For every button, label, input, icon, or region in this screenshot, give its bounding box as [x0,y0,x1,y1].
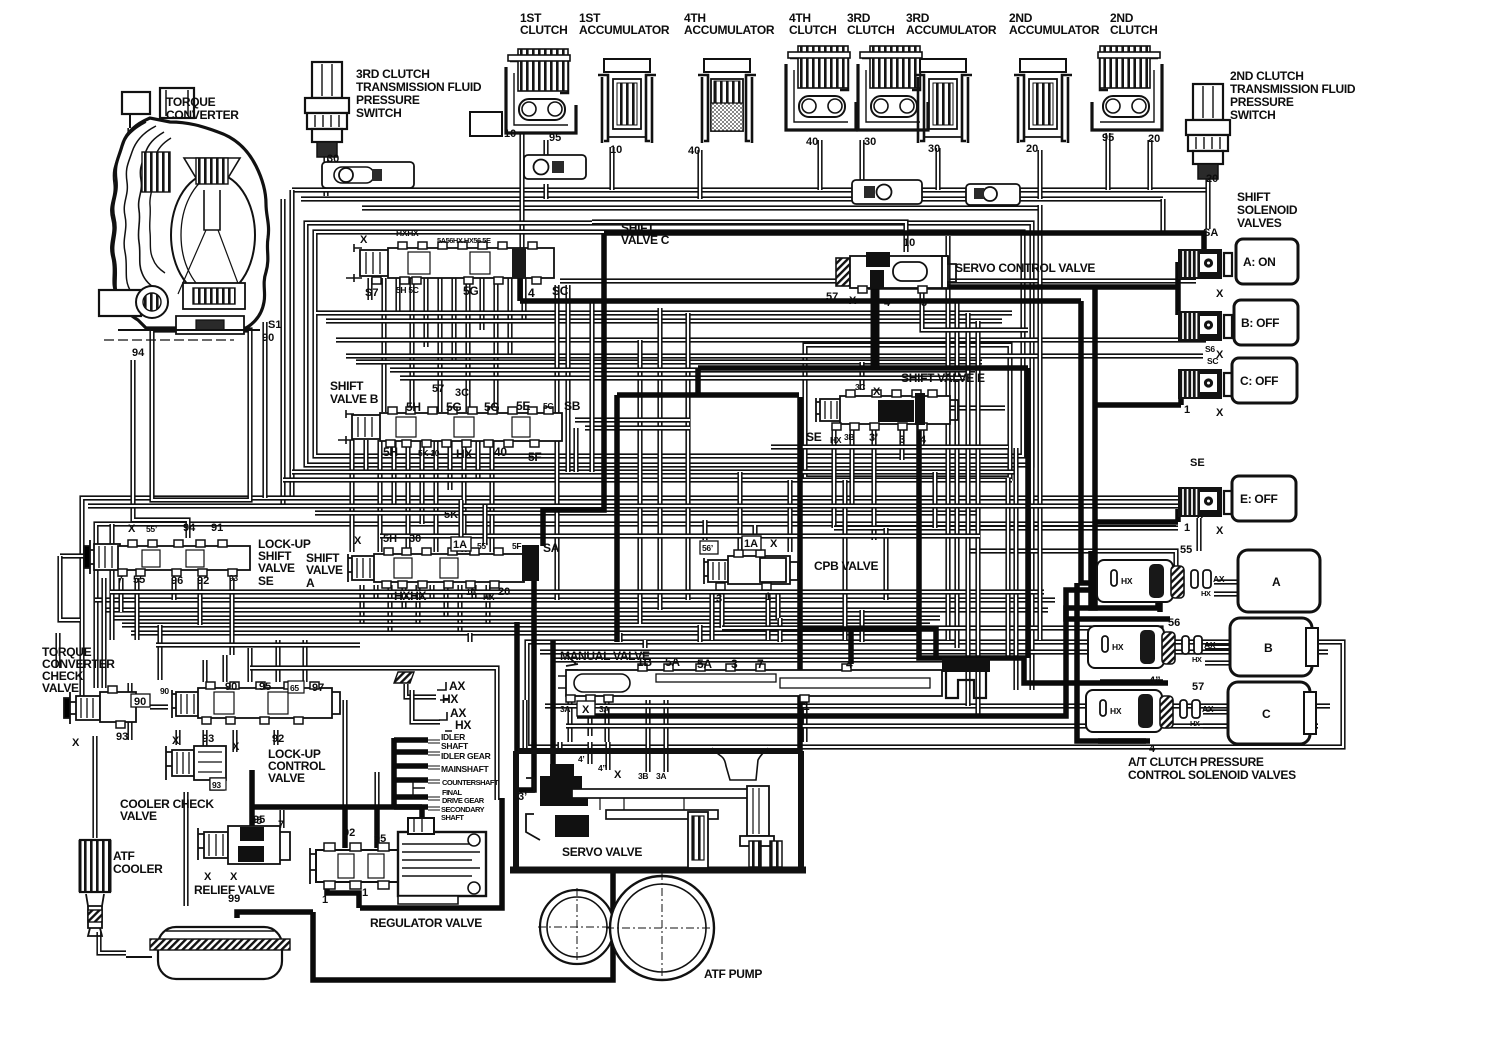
pipe lube main [391,738,397,808]
wire va10 [485,585,490,625]
pipe lube stub idler gear [394,749,428,755]
svg-text:SE: SE [1190,457,1205,469]
wire ve right [950,405,1005,410]
wire h362 [356,359,982,364]
svg-text:5A: 5A [697,657,712,671]
wire e box drop1 [1005,478,1010,660]
pipe SA drop [543,233,604,546]
svg-text:COUNTERSHAFT: COUNTERSHAFT [442,778,499,787]
wire h592 [110,589,1044,594]
pipe SA-SB junction [1175,262,1181,315]
svg-text:VALVE: VALVE [120,809,157,823]
svg-text:CPB VALVE: CPB VALVE [814,559,878,573]
A/T clutch pressure control solenoid A assembly [1097,560,1225,602]
wire vc5 [423,278,428,347]
orifice check valve top left [322,162,414,188]
wire cpb d2 [719,592,724,628]
svg-text:S7: S7 [365,287,378,299]
svg-text:HX: HX [456,447,472,461]
wire frame mid a [82,498,1200,710]
relief valve [198,826,290,864]
orifice check valve 2nd accumulator [966,184,1020,205]
pipe servo ctl drop fat [871,288,880,366]
wire h378 [400,375,965,380]
svg-text:X: X [360,234,368,246]
svg-text:HXHX: HXHX [396,228,419,238]
wire tcc frame [127,683,132,740]
shift solenoid valve SE [1178,487,1232,517]
svg-text:X: X [230,871,238,883]
svg-text:SWITCH: SWITCH [356,106,402,120]
labels near regulator idler shafts [851,697,853,707]
svg-text:10: 10 [504,128,516,140]
svg-text:3A: 3A [560,704,570,714]
wire 2nd clutch 20 drop [1147,140,1152,190]
svg-text:4”: 4” [598,763,606,773]
wire vc1 [367,278,372,300]
wire rc4 [965,313,970,706]
wire h610 [104,607,1048,612]
svg-text:20: 20 [498,586,510,598]
svg-text:94: 94 [132,347,145,359]
3rd accumulator [914,59,972,143]
svg-text:90: 90 [262,332,274,344]
svg-text:X: X [128,523,136,535]
svg-text:57: 57 [432,383,444,395]
wire lucv r1 [202,660,207,682]
wire row a link [1214,579,1238,584]
wire lucv r3 [247,648,252,682]
shift solenoid valve SA [1178,249,1232,279]
wire vb3 [377,440,382,552]
wire h340 [336,337,1206,342]
pipe to sol E [1095,509,1178,522]
wire lu4 [197,578,202,625]
wire manual 1 down [802,700,807,742]
svg-text:SHAFT: SHAFT [441,813,464,822]
wire h513 [315,510,980,515]
svg-text:VALVE: VALVE [306,563,343,577]
svg-text:3’: 3’ [518,791,527,803]
wire va6 [429,585,434,600]
wire left frame drop 1 [289,190,294,498]
svg-text:7: 7 [278,819,284,831]
svg-text:3: 3 [716,593,722,605]
svg-text:ACCUMULATOR: ACCUMULATOR [906,23,997,37]
svg-text:SA: SA [543,541,560,555]
svg-text:93: 93 [116,731,128,743]
wire vb11 [489,440,494,552]
svg-text:VALVE: VALVE [42,681,79,695]
svg-text:40: 40 [494,445,507,459]
svg-text:A: A [306,576,315,590]
wire relief 7 [279,810,284,828]
wire se hx line [771,444,1008,449]
wire bus2 right down [1160,199,1165,233]
shift valve A [348,545,539,588]
svg-text:3: 3 [921,297,927,309]
wire h536 [380,533,980,538]
svg-text:3: 3 [899,434,905,446]
wire h480 [283,477,1012,482]
svg-text:92: 92 [343,827,355,839]
wire row c neck2 [1203,723,1230,728]
orifice check valve 3rd clutch [852,180,922,204]
svg-text:AX: AX [1213,574,1225,584]
svg-text:C: C [1262,707,1271,721]
svg-text:3RD CLUTCH: 3RD CLUTCH [356,67,430,81]
svg-text:SHIFT: SHIFT [330,379,364,393]
svg-text:TORQUE: TORQUE [166,95,216,109]
wire lu left2 [60,556,80,620]
svg-text:20: 20 [1206,173,1218,185]
wire v58 [55,633,60,668]
2nd clutch pressure switch [1186,84,1230,179]
wire lu5 [229,578,234,655]
wire manual drops [642,640,647,648]
wire lu1 [118,578,123,612]
ATF pump [538,872,718,984]
svg-text:55’: 55’ [477,541,488,551]
svg-text:ATF PUMP: ATF PUMP [704,967,762,981]
wire h321 [326,318,1002,323]
svg-text:30: 30 [928,143,940,155]
svg-text:2ND CLUTCH: 2ND CLUTCH [1230,69,1304,83]
svg-text:HX: HX [442,692,458,706]
wire ve 3c [859,362,864,390]
svg-text:SHAFT: SHAFT [441,741,469,751]
pipe h366 [698,365,1028,371]
wire manual up4 [859,610,864,642]
svg-text:SA: SA [1203,227,1218,239]
wire row b neck2 [1205,660,1232,665]
svg-text:HX: HX [1110,706,1122,716]
wire ax bracket 1 [406,684,436,697]
svg-text:55: 55 [1180,544,1192,556]
svg-text:X: X [204,871,212,883]
wire 3rd accumulator drop [935,148,940,190]
svg-text:5H: 5H [383,533,397,545]
svg-text:20: 20 [1026,143,1038,155]
svg-text:57: 57 [1192,681,1204,693]
svg-text:SE: SE [258,574,274,588]
svg-text:B: OFF: B: OFF [1241,316,1279,330]
pipe servo left up [514,622,520,751]
1st accumulator [598,59,656,143]
wire vc2 [381,278,386,412]
wire lucv r2 [222,655,227,682]
svg-text:56’: 56’ [702,543,713,553]
wire lucv d3 [232,730,237,752]
svg-text:ACCUMULATOR: ACCUMULATOR [1009,23,1100,37]
svg-text:1: 1 [803,699,810,713]
countershaft bracket [413,780,425,798]
orifice check valve 1st clutch [524,155,586,179]
svg-text:S6: S6 [1205,344,1215,354]
wire top bus 3 [362,205,1040,210]
svg-text:95: 95 [549,132,561,144]
pipe valve e drop [919,424,1168,683]
wire rc2 [954,299,959,648]
svg-text:AX: AX [1202,704,1214,714]
wire cpb v5 [737,472,742,552]
wire h472 [292,469,1018,474]
svg-text:1A: 1A [744,538,758,550]
svg-text:IDLER GEAR: IDLER GEAR [441,751,491,761]
wire 1st clutch 95 drop [543,140,548,164]
wire vc6 [437,278,442,412]
wire frame shift valve E box [805,345,1010,478]
svg-text:SE: SE [806,430,822,444]
pipe v617 [614,395,620,642]
svg-text:99: 99 [228,893,240,905]
wire vb7 [433,440,438,552]
pipe c row 4 [1098,738,1150,744]
wire cooler down [183,792,188,906]
svg-text:40: 40 [688,145,700,157]
svg-text:C: OFF: C: OFF [1240,374,1278,388]
wire cpb 1a [752,525,757,538]
wire lu2 [134,578,139,640]
wire e v6 [842,480,847,640]
svg-text:ACCUMULATOR: ACCUMULATOR [684,23,775,37]
wire top bus 1 [292,187,1210,192]
svg-text:HXHX: HXHX [394,589,426,603]
wire h618 [113,615,940,620]
svg-text:SHIFT VALVE E: SHIFT VALVE E [901,371,985,385]
wire servo gap1 [531,742,536,751]
wire servo 3p [522,700,527,748]
svg-text:VALVES: VALVES [1237,216,1282,230]
svg-text:TRANSMISSION FLUID: TRANSMISSION FLUID [356,80,482,94]
svg-text:CLUTCH: CLUTCH [789,23,837,37]
svg-text:CLUTCH: CLUTCH [847,23,895,37]
wire va9 [471,585,476,600]
svg-text:3C: 3C [855,382,865,392]
wire mid v3 [657,308,662,610]
1st clutch [470,49,576,136]
A/T clutch pressure control solenoid B assembly [1088,626,1216,668]
wire manual box inner [540,649,1328,654]
wire vb6 [419,440,424,524]
regulator valve [310,818,486,904]
shift valve B [338,407,562,447]
wire tc 91 [262,322,267,498]
svg-text:1A: 1A [453,539,467,551]
svg-text:SC: SC [1207,356,1218,366]
pipe a row wrap [1091,551,1160,608]
wire 4th clutch drop [817,140,822,190]
svg-text:92: 92 [197,575,209,587]
svg-text:96: 96 [171,575,183,587]
wire cooler feed [92,736,97,838]
wire manual box inner2 [552,657,985,662]
svg-text:3A: 3A [599,704,609,714]
shift valve C [346,242,554,284]
wire ax bracket 2 [412,690,440,722]
3rd clutch pressure switch [305,62,349,157]
lock-up control valve [172,682,340,724]
wire va5 [415,585,420,625]
svg-text:10: 10 [610,144,622,156]
wire row a neck2 [1214,591,1240,596]
A/T CPC solenoid box B [1230,618,1312,676]
svg-text:94: 94 [183,522,196,534]
4th clutch [786,46,856,130]
wire se to 55 [1196,518,1201,551]
wire ve5 [919,425,924,448]
wire h313 [316,310,1012,315]
svg-text:4: 4 [528,286,535,300]
svg-text:4: 4 [884,297,891,309]
wire h420 [575,417,690,422]
wire tc 94 [133,360,188,538]
wire 2nd switch drop [1205,155,1210,229]
svg-text:3C: 3C [455,387,469,399]
wire rc3 [1029,420,1034,690]
pipe c row feed [1025,368,1031,658]
svg-text:REGULATOR VALVE: REGULATOR VALVE [370,916,482,930]
wire h356 [346,353,1203,358]
svg-text:4’: 4’ [578,754,585,764]
wire h625 [122,622,930,627]
svg-text:5A: 5A [665,655,680,669]
wire lucv d2 [202,730,207,758]
A/T CPC solenoid box C [1228,682,1310,744]
solenoid box A: ON [1236,239,1298,284]
wire 3rd switch drop [323,157,328,196]
svg-text:X: X [172,735,180,747]
svg-text:AX: AX [449,679,465,693]
svg-text:97: 97 [312,682,324,694]
svg-text:3’: 3’ [869,432,878,444]
svg-text:DRIVE GEAR: DRIVE GEAR [442,796,485,805]
wire vc9 [479,278,484,330]
wire vb4 [391,440,396,505]
svg-text:95: 95 [259,681,271,693]
wire servo 3b [645,700,650,772]
wire 2nd clutch 95 drop [1105,133,1110,190]
svg-text:S1: S1 [268,319,281,331]
wire mid v4 [685,313,690,600]
wire left low v2 [109,524,114,640]
wire tcc to lucv [150,704,168,709]
svg-text:4: 4 [1149,743,1156,755]
svg-text:AX: AX [1204,640,1216,650]
svg-text:ATF: ATF [113,849,135,863]
pipe below manual thick [577,590,1158,716]
svg-text:4”: 4” [1149,675,1161,687]
wire vb10 [475,440,480,480]
wire manual 3a2 [604,700,609,742]
svg-text:VALVE B: VALVE B [330,392,379,406]
svg-text:5E: 5E [516,399,530,413]
svg-text:HX: HX [1121,576,1133,586]
wire e v7 [883,528,888,600]
wire vb9 [461,440,466,552]
wire e box drop2 [1013,448,1018,690]
wire manual x [587,700,592,736]
wire servo 4pp [605,742,610,770]
svg-text:30: 30 [864,136,876,148]
svg-text:90: 90 [225,681,237,693]
CPB valve [704,550,798,590]
wire tc rect [152,330,250,500]
wire vb1 [349,440,354,552]
wire vc11 [507,278,512,355]
pipe relief feed [249,770,255,827]
pipe main line y287 [868,284,1178,290]
svg-text:E: OFF: E: OFF [1240,492,1278,506]
wire 56 line [722,628,1161,640]
wire ve2 [849,425,854,505]
svg-text:X: X [873,386,881,398]
wire ve3 [871,425,876,540]
svg-text:93: 93 [229,573,238,583]
wire reg 92 [342,700,347,807]
wire servo 3a [663,700,668,772]
wire frame mid b [96,524,1176,688]
pipe to sol C [1095,391,1181,405]
pipe x1077 down [1077,583,1146,741]
pipe b row 4pp [1100,679,1163,685]
wire cpb d3 [765,592,770,640]
wire 1st clutch 10 drop [519,132,524,250]
pipe reg 1 elbow [327,878,359,908]
wire lucv r5 [302,640,307,682]
wire frame A [306,223,1032,465]
pipe lube stub countershaft [394,777,428,783]
wire h633 [131,630,920,635]
svg-text:5C: 5C [543,401,553,411]
pipe h395 [617,392,799,398]
wire cpb 56 [702,520,707,540]
pipe manual 4 up [848,629,854,664]
wire lucv d1 [175,730,180,745]
wire vc12 [521,278,526,321]
manual valve [558,654,990,702]
pipe SA feed [604,233,1204,252]
svg-text:95: 95 [374,833,386,845]
wire cpb d4 [775,592,780,620]
svg-text:5H: 5H [383,445,398,459]
wire reg 95 [374,772,379,807]
wire lucv d4 [273,730,278,745]
svg-text:5H 5C: 5H 5C [396,285,419,295]
shift valve E [816,390,958,430]
wire lu left [60,553,86,558]
svg-text:7: 7 [757,657,764,671]
svg-text:HX: HX [830,435,842,445]
wire va4 [401,585,406,610]
svg-text:X: X [354,535,362,547]
wire e v8 [932,472,937,528]
pipe reg 95 lower [374,807,380,848]
svg-text:90: 90 [160,686,169,696]
svg-text:5H: 5H [406,400,421,414]
wire manual up3 [777,618,782,642]
svg-text:3B: 3B [638,771,648,781]
solenoid box C: OFF [1232,358,1297,403]
svg-text:HX: HX [1112,642,1124,652]
pipe main line y301 [520,298,1081,304]
pipe lube stub idler shaft [394,737,428,743]
svg-text:5K 10: 5K 10 [418,448,440,458]
svg-text:56: 56 [1168,617,1180,629]
4th accumulator [698,59,756,143]
svg-text:93: 93 [202,733,214,745]
svg-text:SWITCH: SWITCH [1230,108,1276,122]
